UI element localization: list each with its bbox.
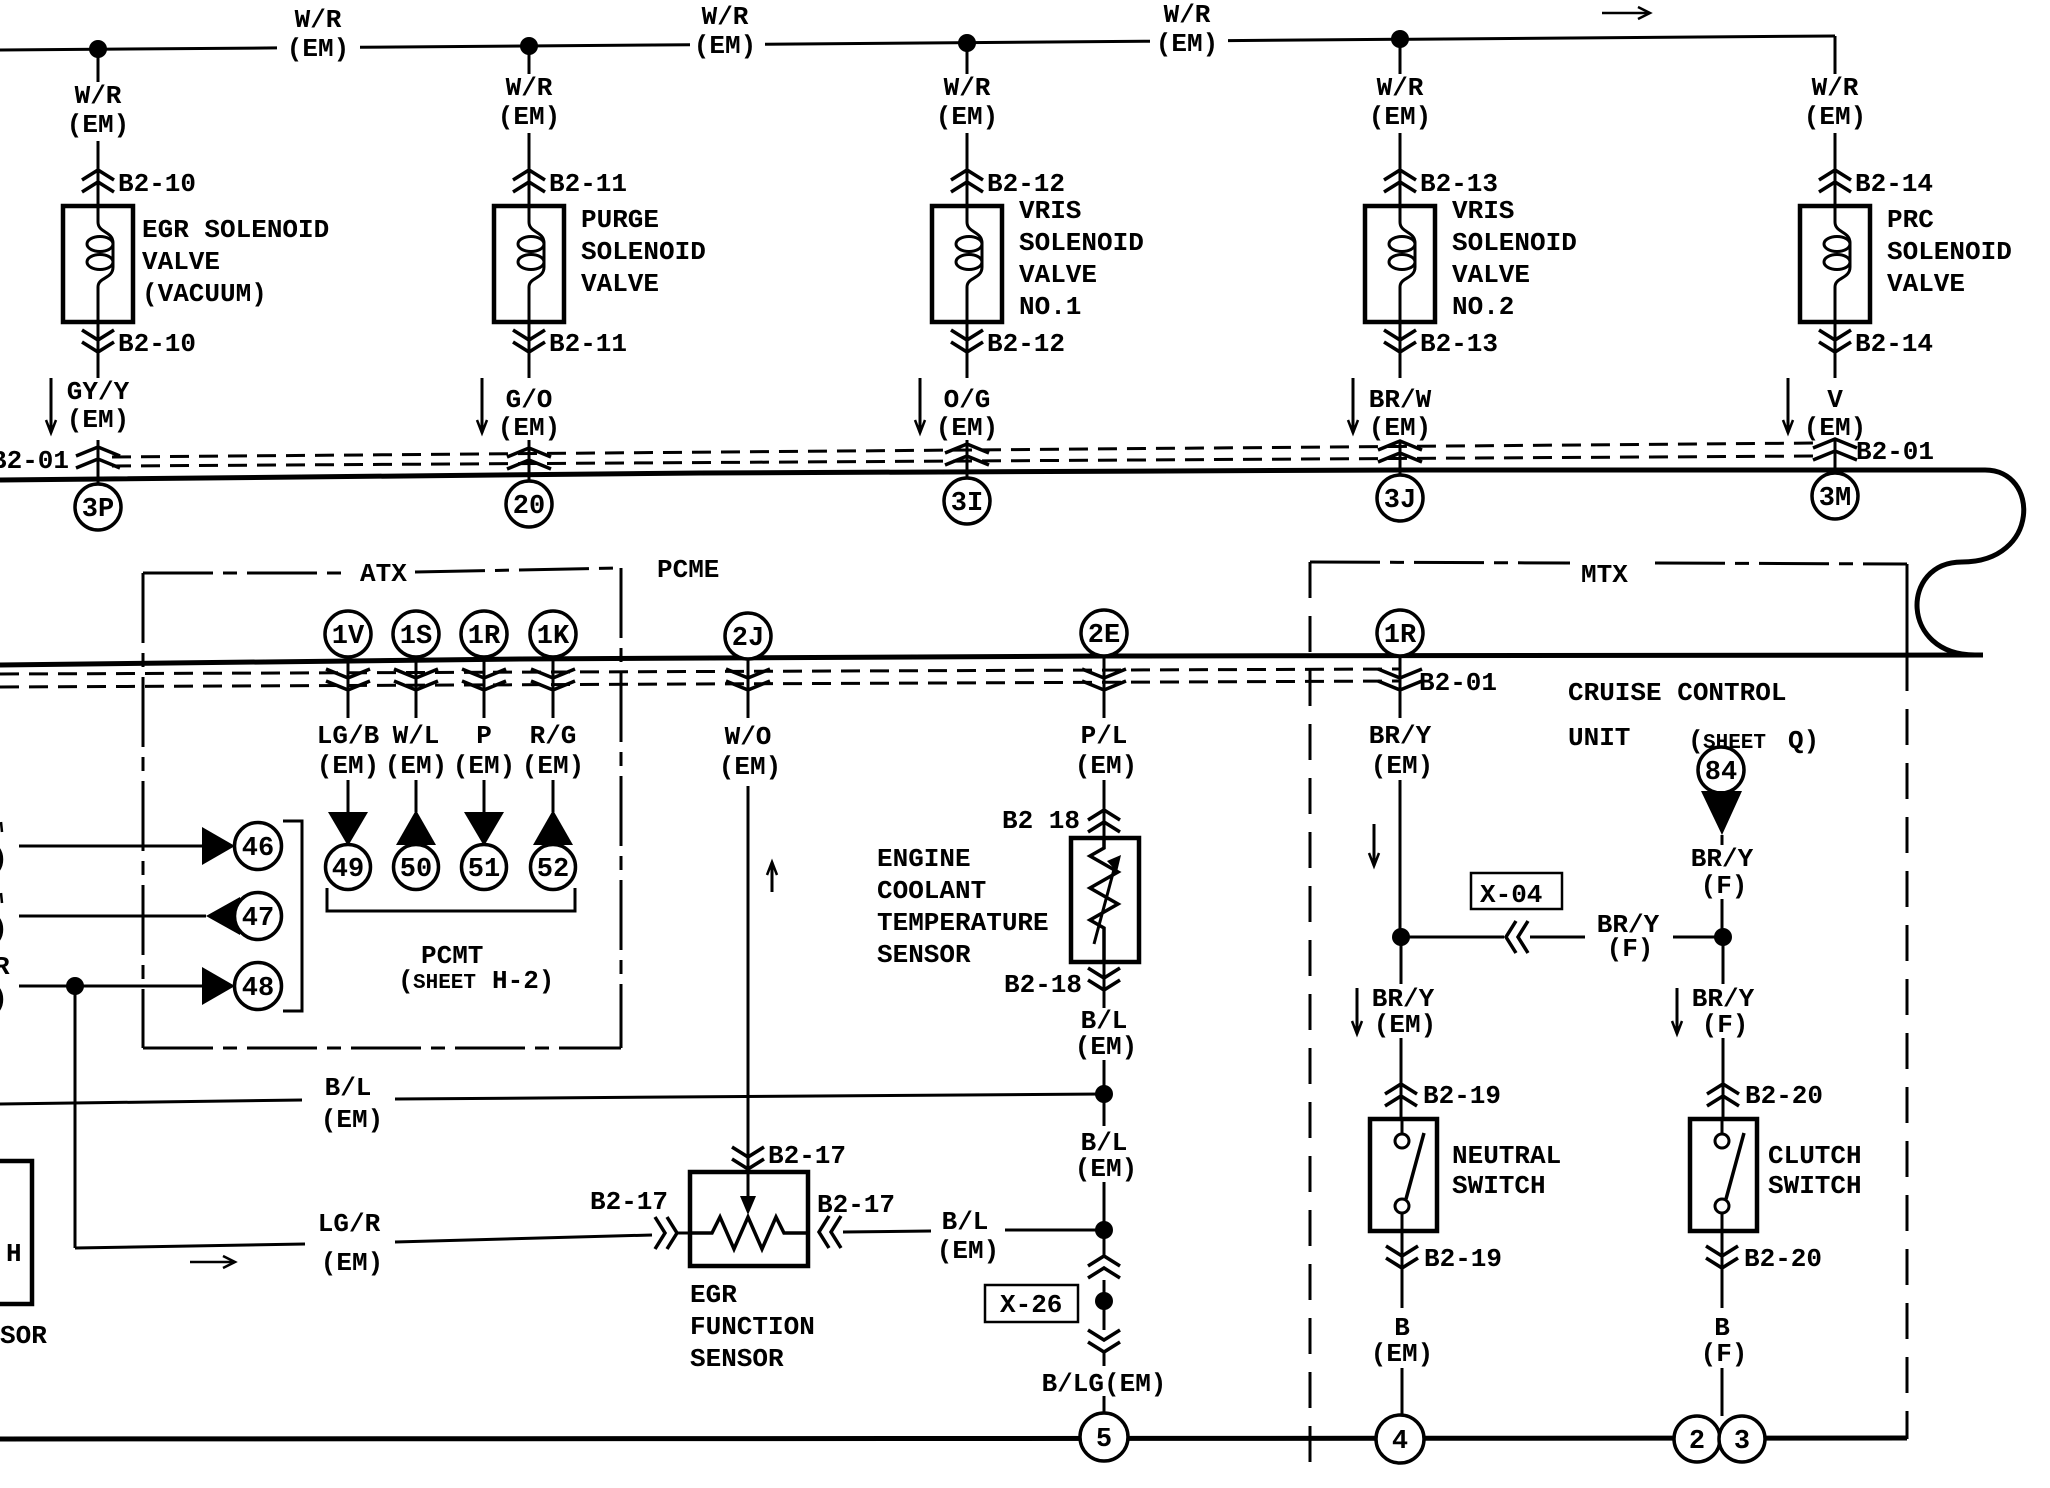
- svg-text:(EM): (EM): [67, 110, 129, 140]
- wire below solenoid circuit 3: [966, 322, 969, 378]
- solenoid coil circuit 2: [518, 206, 544, 322]
- svg-text:B2-17: B2-17: [768, 1141, 846, 1171]
- pin circle 4: [1376, 1415, 1424, 1463]
- wire X-04 middle segment: [1530, 936, 1585, 939]
- harness dashed line lower B: [0, 681, 1400, 687]
- connector chevron B2-13 upper: [1384, 170, 1416, 192]
- connector chevron B2-17 above sensor: [732, 1147, 764, 1169]
- label B2 18 upper: [1002, 806, 1080, 836]
- pin circle 48: [235, 963, 282, 1010]
- svg-text:3I: 3I: [951, 489, 983, 519]
- svg-text:V: V: [1827, 385, 1843, 415]
- bracket under pins 49-52: [327, 888, 575, 911]
- svg-text:48: 48: [242, 974, 274, 1004]
- svg-text:(EM): (EM): [937, 1236, 999, 1266]
- junction node X-04 right: [1714, 928, 1732, 946]
- arrow down beside clutch switch wire: [1672, 988, 1682, 1034]
- wire circuit 4 to connector: [1399, 133, 1402, 206]
- solenoid coil circuit 1: [87, 206, 113, 322]
- connector chevron B2-19 lower: [1386, 1246, 1418, 1268]
- svg-text:20: 20: [513, 492, 545, 522]
- svg-text:(EM): (EM): [1369, 413, 1431, 443]
- arrow down beside G/O wire: [477, 378, 487, 433]
- neutral switch box: [1370, 1119, 1437, 1231]
- svg-text:B2-17: B2-17: [590, 1187, 668, 1217]
- label B2-17 right of sensor: [817, 1190, 895, 1220]
- pin circle 52: [531, 845, 576, 890]
- wire label W/R (EM) circuit 4: [1369, 73, 1431, 132]
- svg-text:(: (: [398, 966, 414, 996]
- solenoid valve box circuit 1: [63, 206, 133, 322]
- wire label W/R (EM) circuit 5: [1804, 73, 1866, 132]
- pin circle 3P: [75, 484, 121, 530]
- svg-text:2: 2: [1689, 1427, 1705, 1457]
- wire junction to BR/Y label right: [1722, 937, 1725, 984]
- svg-text:EGR: EGR: [690, 1280, 737, 1310]
- arrow out of pin 52: [533, 810, 573, 845]
- wire label W/L (EM): [385, 721, 447, 781]
- junction node B/L 1: [1095, 1085, 1113, 1103]
- wire below solenoid circuit 5: [1834, 322, 1837, 378]
- label PURGE SOLENOID circuit 2: [581, 205, 706, 299]
- pin circle 20: [506, 481, 552, 527]
- svg-text:(EM): (EM): [1371, 1339, 1433, 1369]
- svg-text:3M: 3M: [1819, 484, 1851, 514]
- svg-text:1R: 1R: [468, 622, 501, 652]
- svg-text:SWITCH: SWITCH: [1452, 1171, 1546, 1201]
- svg-text:(F): (F): [1701, 1339, 1748, 1369]
- wire circuit 3 to connector: [966, 133, 969, 206]
- svg-text:PCME: PCME: [657, 555, 719, 585]
- svg-text:(EM): (EM): [385, 751, 447, 781]
- wire B/L (EM) horizontal: [0, 1094, 1104, 1104]
- arrow into pin 46: [202, 827, 235, 865]
- cut label fragment wire 48: [0, 952, 10, 1014]
- wire circuit 2 to harness: [528, 440, 531, 482]
- wire label B/L (EM) second: [1075, 1128, 1137, 1184]
- svg-text:(EM): (EM): [1371, 751, 1433, 781]
- wire from left edge to pin 47: [19, 915, 206, 918]
- svg-text:W/R: W/R: [1164, 0, 1211, 30]
- svg-text:SOLENOID: SOLENOID: [1887, 237, 2012, 267]
- wire label BR/Y (EM) lower: [1372, 984, 1436, 1040]
- neutral switch contacts and lever: [1395, 1119, 1424, 1231]
- svg-text:EGR SOLENOID: EGR SOLENOID: [142, 215, 329, 245]
- connector chevron B2-20 lower: [1706, 1246, 1738, 1268]
- cut label SOR below box: [0, 1321, 47, 1351]
- svg-text:B2-19: B2-19: [1424, 1244, 1502, 1274]
- label B2-12 upper: [987, 169, 1065, 199]
- label sheet Q: [1688, 726, 1819, 756]
- svg-text:3P: 3P: [82, 495, 114, 525]
- wire to pin 50: [415, 780, 418, 812]
- wire color label GY/Y (EM) circuit 1: [67, 377, 130, 435]
- arrow flow direction top right: [1602, 7, 1650, 19]
- svg-text:SHEET: SHEET: [413, 972, 476, 995]
- label VRIS SOLENOID circuit 3: [1019, 196, 1144, 322]
- arrow into pin 51: [464, 812, 504, 846]
- svg-text:51: 51: [468, 855, 500, 885]
- label B2-10 upper: [118, 169, 196, 199]
- svg-text:3J: 3J: [1384, 486, 1416, 516]
- svg-text:84: 84: [1705, 758, 1737, 788]
- wire to neutral switch: [1400, 1038, 1403, 1119]
- arrow down beside GY/Y wire: [46, 378, 56, 433]
- svg-text:B2-14: B2-14: [1855, 169, 1933, 199]
- solenoid valve box circuit 5: [1800, 206, 1870, 322]
- svg-text:R: R: [0, 952, 10, 982]
- svg-text:P: P: [476, 721, 492, 751]
- svg-text:52: 52: [537, 855, 569, 885]
- svg-text:50: 50: [400, 855, 432, 885]
- wire label W/R (EM) top 2: [694, 2, 756, 61]
- label B2-17 above sensor: [768, 1141, 846, 1171]
- svg-text:B2-12: B2-12: [987, 329, 1065, 359]
- label B2-11 upper: [549, 169, 627, 199]
- svg-text:(EM): (EM): [936, 102, 998, 132]
- wire label B (EM): [1371, 1313, 1433, 1369]
- svg-text:W/L: W/L: [393, 721, 440, 751]
- pin circle 1K on bus 2 at x=553: [530, 611, 576, 657]
- MTX block dashed box: [1310, 562, 1907, 1467]
- pin circle 1R on bus 2 at x=484: [461, 611, 507, 657]
- arrow into pin 49: [328, 812, 368, 846]
- svg-text:(EM): (EM): [694, 31, 756, 61]
- svg-text:SWITCH: SWITCH: [1768, 1171, 1862, 1201]
- svg-text:B2-13: B2-13: [1420, 329, 1498, 359]
- connector chevron B2-19 upper: [1385, 1084, 1417, 1106]
- label PCME: [657, 555, 719, 585]
- label B2-11 lower: [549, 329, 627, 359]
- svg-text:TEMPERATURE: TEMPERATURE: [877, 908, 1049, 938]
- wire 84 to label: [1721, 835, 1724, 845]
- wire circuit 1 to connector: [97, 141, 100, 206]
- arrow down beside BR/Y wire: [1369, 824, 1379, 866]
- pin circle 3: [1719, 1416, 1765, 1462]
- solenoid valve box circuit 2: [494, 206, 564, 322]
- svg-text:1K: 1K: [537, 622, 570, 652]
- svg-text:(F): (F): [1607, 934, 1654, 964]
- svg-text:SENSOR: SENSOR: [877, 940, 971, 970]
- arrow flow direction LG/R: [190, 1256, 235, 1268]
- svg-text:W/R: W/R: [75, 81, 122, 111]
- wire B/L label to junction: [1005, 1229, 1104, 1232]
- wire through X-26: [1103, 1280, 1106, 1330]
- svg-text:COOLANT: COOLANT: [877, 876, 986, 906]
- wire label P/L (EM): [1075, 721, 1137, 781]
- label B2-20 lower: [1744, 1244, 1822, 1274]
- wire W/R drop circuit 4: [1399, 39, 1402, 74]
- svg-text:(EM): (EM): [453, 751, 515, 781]
- svg-text:PRC: PRC: [1887, 205, 1934, 235]
- svg-text:): ): [0, 984, 8, 1014]
- label B2-14 upper: [1855, 169, 1933, 199]
- pin circle 3M: [1812, 473, 1858, 519]
- wire label R/G (EM): [522, 721, 584, 781]
- svg-text:PCMT: PCMT: [421, 941, 483, 971]
- svg-text:(EM): (EM): [719, 752, 781, 782]
- wire label BR/Y (F) below 84: [1691, 844, 1754, 901]
- wire color label O/G (EM) circuit 3: [936, 385, 998, 443]
- svg-text:(EM): (EM): [1369, 102, 1431, 132]
- svg-text:NO.2: NO.2: [1452, 292, 1514, 322]
- bottom bus line: [0, 1438, 1907, 1439]
- svg-text:(EM): (EM): [1374, 1010, 1436, 1040]
- svg-text:SOLENOID: SOLENOID: [1019, 228, 1144, 258]
- svg-text:B2-20: B2-20: [1745, 1081, 1823, 1111]
- label B2-10 lower: [118, 329, 196, 359]
- svg-text:47: 47: [242, 904, 274, 934]
- svg-text:BR/Y: BR/Y: [1691, 844, 1754, 874]
- wire chevron to sensor box: [677, 1232, 692, 1235]
- wire from left edge to pin 46: [19, 845, 202, 848]
- pin circle 49: [326, 845, 371, 890]
- pin circle 47: [235, 893, 282, 940]
- label PRC SOLENOID circuit 5: [1887, 205, 2012, 299]
- pin circle 50: [394, 845, 439, 890]
- wire circuit 2 to connector: [528, 133, 531, 206]
- svg-text:B2-17: B2-17: [817, 1190, 895, 1220]
- harness chevron below pin 1V: [326, 656, 370, 718]
- junction node X-04 left: [1392, 928, 1410, 946]
- harness chevron B2-01 circuit 1: [76, 447, 120, 468]
- wire label BR/Y (F) at X-04: [1597, 910, 1660, 964]
- engine coolant temperature sensor box: [1071, 838, 1139, 962]
- svg-text:B2-18: B2-18: [1004, 970, 1082, 1000]
- svg-text:(F): (F): [1701, 871, 1748, 901]
- wire to B/L junction 2: [1103, 1182, 1106, 1256]
- connector chevron B2-11 lower: [513, 330, 545, 352]
- svg-text:ENGINE: ENGINE: [877, 844, 971, 874]
- wire label W/R (EM) circuit 3: [936, 73, 998, 132]
- wire label W/R (EM) circuit 1: [67, 81, 129, 140]
- svg-text:LG/R: LG/R: [318, 1209, 381, 1239]
- solenoid coil circuit 3: [956, 206, 982, 322]
- wire to pin 49: [347, 780, 350, 812]
- wire color label V (EM) circuit 5: [1804, 385, 1866, 443]
- arrow into pin 48: [202, 967, 235, 1005]
- wire to pin 51: [483, 780, 486, 812]
- arrow down beside BR/W wire: [1348, 378, 1358, 433]
- harness chevron B2-01 circuit 4: [1378, 441, 1422, 462]
- pin circle 2E on bus 2 at x=1104: [1081, 610, 1127, 656]
- svg-text:(EM): (EM): [522, 751, 584, 781]
- connector chevron X-26 upper: [1088, 1256, 1120, 1278]
- wire to pin 52: [552, 780, 555, 812]
- harness dashed line lower A: [0, 669, 1400, 674]
- junction node on wire 48: [66, 977, 84, 995]
- label PCMT: [421, 941, 483, 971]
- svg-text:(EM): (EM): [936, 413, 998, 443]
- thermistor element: [1090, 840, 1121, 960]
- X-26 connector label box: [985, 1285, 1078, 1322]
- wire below solenoid circuit 4: [1399, 322, 1402, 378]
- svg-text:1V: 1V: [332, 622, 365, 652]
- connector chevron B2-13 lower: [1384, 330, 1416, 352]
- svg-text:B2-01: B2-01: [1419, 668, 1497, 698]
- wire 84 label to junction: [1721, 899, 1724, 937]
- svg-text:B2 18: B2 18: [1002, 806, 1080, 836]
- junction node top wire at purge solenoid: [520, 37, 538, 55]
- wire label LG/R (EM): [318, 1209, 383, 1278]
- svg-text:LG/B: LG/B: [317, 721, 380, 751]
- svg-text:2E: 2E: [1088, 621, 1120, 651]
- svg-text:NEUTRAL: NEUTRAL: [1452, 1141, 1561, 1171]
- connector chevron X-04: [1506, 921, 1528, 953]
- wire label B (F): [1701, 1313, 1748, 1369]
- svg-text:SOR: SOR: [0, 1321, 47, 1351]
- svg-text:(EM): (EM): [67, 405, 129, 435]
- wire X-04 right segment: [1673, 936, 1723, 939]
- wire W/R top feed bus: [0, 36, 1835, 50]
- svg-text:FUNCTION: FUNCTION: [690, 1312, 815, 1342]
- svg-text:VALVE: VALVE: [1019, 260, 1097, 290]
- svg-text:P/L: P/L: [1081, 721, 1128, 751]
- harness chevron below pin 1S: [394, 656, 438, 718]
- harness chevron below pin 1R: [1378, 655, 1422, 718]
- wire circuit 1 to harness: [97, 440, 100, 485]
- wire label BR/Y (F) lower: [1692, 984, 1755, 1040]
- label ATX: [360, 559, 407, 589]
- pin circle 3J: [1377, 475, 1423, 521]
- label B2-01 left end: [0, 446, 69, 476]
- wire to B/L junction 1: [1103, 1060, 1106, 1126]
- svg-text:(EM): (EM): [321, 1248, 383, 1278]
- svg-text:B/L: B/L: [942, 1207, 989, 1237]
- svg-text:UNIT: UNIT: [1568, 723, 1630, 753]
- harness chevron below pin 1K: [531, 656, 575, 718]
- label sheet H-2: [398, 966, 554, 996]
- harness bus line 1: [0, 470, 1985, 480]
- connector chevron B2-20 upper: [1707, 1084, 1739, 1106]
- pin circle 2: [1674, 1416, 1720, 1462]
- svg-text:B2-20: B2-20: [1744, 1244, 1822, 1274]
- wire X-04 left segment: [1401, 936, 1504, 939]
- wire down from wire-48 junction: [74, 986, 77, 1248]
- svg-text:BR/W: BR/W: [1369, 385, 1432, 415]
- label ENGINE COOLANT TEMPERATURE SENSOR: [877, 844, 1049, 970]
- connector chevron X-26 lower: [1088, 1330, 1120, 1352]
- svg-text:CRUISE CONTROL: CRUISE CONTROL: [1568, 678, 1786, 708]
- wire label B/LG(EM): [1042, 1369, 1167, 1399]
- label CRUISE CONTROL UNIT: [1568, 678, 1786, 753]
- arrow out of pin 50: [396, 810, 436, 845]
- solenoid coil circuit 4: [1389, 206, 1415, 322]
- cut label H inside box: [6, 1239, 22, 1269]
- svg-text:2J: 2J: [732, 624, 764, 654]
- wire junction to BR/Y label left: [1400, 937, 1403, 984]
- svg-text:G/O: G/O: [506, 385, 553, 415]
- svg-text:H: H: [6, 1239, 22, 1269]
- svg-text:): ): [0, 914, 8, 944]
- wire label B/L (EM) mid: [321, 1073, 383, 1135]
- arrow down beside V wire: [1783, 378, 1793, 433]
- wire W/R drop circuit 5: [1834, 36, 1837, 74]
- connector chevron B2-17 out of sensor right: [819, 1216, 841, 1248]
- wire to B/LG label: [1103, 1352, 1106, 1366]
- svg-text:SOLENOID: SOLENOID: [581, 237, 706, 267]
- wire circuit 4 to harness: [1399, 440, 1402, 476]
- wire to pin 4: [1401, 1368, 1404, 1416]
- label B2-01 at MTX 1R: [1419, 668, 1497, 698]
- svg-text:(VACUUM): (VACUUM): [142, 279, 267, 309]
- harness bus line 2: [0, 655, 1983, 665]
- harness chevron below pin 1R: [462, 656, 506, 718]
- svg-text:W/R: W/R: [1812, 73, 1859, 103]
- wire W/O into sensor: [747, 786, 750, 1196]
- svg-text:B2-11: B2-11: [549, 169, 627, 199]
- svg-text:(EM): (EM): [1156, 29, 1218, 59]
- label B2-13 lower: [1420, 329, 1498, 359]
- label B2-20 upper: [1745, 1081, 1823, 1111]
- harness chevron B2-01 circuit 3: [945, 444, 989, 465]
- label EGR SOLENOID VALVE circuit 1: [142, 215, 329, 309]
- arrow out of pin 47: [206, 897, 240, 935]
- svg-text:1S: 1S: [400, 622, 432, 652]
- svg-text:BR/Y: BR/Y: [1369, 721, 1432, 751]
- connector chevron B2-11 upper: [513, 170, 545, 192]
- label B2-12 lower: [987, 329, 1065, 359]
- wire label W/R (EM) top 1: [287, 5, 349, 64]
- solenoid coil circuit 5: [1824, 206, 1850, 322]
- wire W/R drop circuit 3: [966, 43, 969, 74]
- cut component box left edge: [0, 1161, 32, 1304]
- svg-text:(EM): (EM): [1804, 102, 1866, 132]
- svg-text:B2-19: B2-19: [1423, 1081, 1501, 1111]
- connector chevron B2-17 into sensor left: [655, 1217, 677, 1249]
- label B2-13 upper: [1420, 169, 1498, 199]
- connector chevron B2-12 upper: [951, 170, 983, 192]
- wire label B/L (EM) right of sensor: [937, 1207, 999, 1266]
- svg-text:SENSOR: SENSOR: [690, 1344, 784, 1374]
- pin circle 1R on bus 2 at x=1400: [1377, 610, 1423, 656]
- svg-text:W/R: W/R: [506, 73, 553, 103]
- wire to clutch switch: [1722, 1038, 1725, 1119]
- svg-text:B2-01: B2-01: [0, 446, 69, 476]
- svg-text:(EM): (EM): [317, 751, 379, 781]
- pin circle 1V on bus 2 at x=348: [325, 611, 371, 657]
- wire label B/L (EM) below ECT: [1075, 1006, 1137, 1062]
- svg-text:H-2): H-2): [492, 966, 554, 996]
- junction node top wire at VRIS no.1 solenoid: [958, 34, 976, 52]
- wire P/L drop from 2E: [1103, 656, 1106, 718]
- connector chevron B2-12 lower: [951, 330, 983, 352]
- label B2-14 lower: [1855, 329, 1933, 359]
- svg-text:(EM): (EM): [321, 1105, 383, 1135]
- svg-text:(EM): (EM): [1075, 751, 1137, 781]
- svg-text:4: 4: [1392, 1427, 1408, 1457]
- pin circle 5: [1080, 1413, 1128, 1461]
- svg-text:(EM): (EM): [498, 102, 560, 132]
- clutch switch box: [1690, 1119, 1757, 1231]
- wire clutch switch to B label: [1721, 1231, 1724, 1308]
- svg-text:W/R: W/R: [702, 2, 749, 32]
- connector chevron B2-18 upper: [1088, 810, 1120, 832]
- svg-text:VALVE: VALVE: [142, 247, 220, 277]
- wire below solenoid circuit 1: [97, 322, 100, 378]
- svg-text:49: 49: [332, 855, 364, 885]
- junction node top wire at EGR solenoid: [89, 40, 107, 58]
- svg-text:(EM): (EM): [287, 34, 349, 64]
- svg-text:MTX: MTX: [1581, 560, 1628, 590]
- svg-text:X-04: X-04: [1480, 880, 1542, 910]
- svg-text:5: 5: [1096, 1425, 1112, 1455]
- svg-text:46: 46: [242, 834, 274, 864]
- pin circle 2J on bus 2 at x=748: [725, 613, 771, 659]
- wire label W/R (EM) circuit 2: [498, 73, 560, 132]
- solenoid valve box circuit 3: [932, 206, 1002, 322]
- svg-text:B2-14: B2-14: [1855, 329, 1933, 359]
